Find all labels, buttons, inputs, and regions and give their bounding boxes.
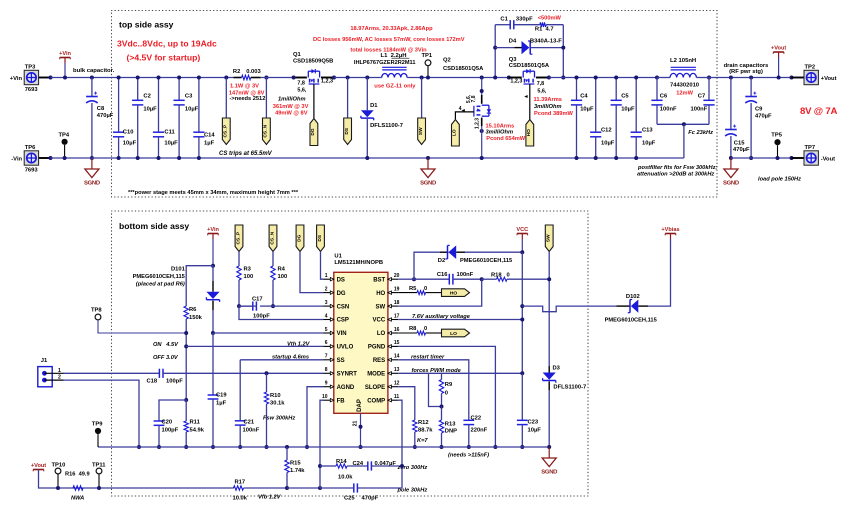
svg-text:C22: C22 bbox=[471, 416, 482, 422]
svg-text:11.39Arms: 11.39Arms bbox=[534, 97, 562, 103]
svg-text:10µF: 10µF bbox=[528, 428, 542, 434]
wire SW net down to D3 bbox=[548, 252, 550, 367]
svg-text:1milliOhm: 1milliOhm bbox=[278, 96, 306, 102]
svg-text:TP9: TP9 bbox=[92, 422, 103, 428]
svg-text:+Vin: +Vin bbox=[207, 227, 219, 233]
wire SYNRT to pin8 bbox=[163, 372, 324, 374]
capacitor C21 100nF bbox=[239, 360, 241, 421]
svg-text:(>4.5V for startup): (>4.5V for startup) bbox=[127, 53, 201, 63]
net tag CS_P (top) bbox=[225, 78, 227, 119]
svg-text:21: 21 bbox=[353, 421, 359, 427]
svg-text:+Vout: +Vout bbox=[771, 45, 786, 51]
resistor R12 88.7k bbox=[413, 420, 417, 432]
wire snubber left leg bbox=[494, 25, 496, 78]
svg-text:VIN: VIN bbox=[337, 331, 347, 337]
svg-text:CS_N: CS_N bbox=[263, 124, 269, 137]
wire RES pin14 to C22 bbox=[398, 360, 469, 421]
svg-text:Q2: Q2 bbox=[443, 58, 451, 64]
pin 10 FB bbox=[324, 399, 334, 401]
svg-text:top side assy: top side assy bbox=[119, 20, 174, 30]
svg-text:100pF: 100pF bbox=[253, 314, 270, 320]
svg-text:C24: C24 bbox=[353, 461, 364, 467]
svg-text:CS trips at 65.5mV: CS trips at 65.5mV bbox=[219, 151, 273, 157]
svg-text:R13: R13 bbox=[445, 422, 456, 428]
pin 20 BST bbox=[388, 278, 398, 280]
svg-text:0: 0 bbox=[445, 391, 448, 397]
svg-text:+Vin: +Vin bbox=[59, 51, 71, 57]
test point TP5 bbox=[774, 139, 780, 145]
svg-text:20: 20 bbox=[394, 273, 400, 279]
svg-text:+Vin: +Vin bbox=[10, 76, 23, 82]
net tag LO (bottom) bbox=[442, 329, 470, 337]
svg-text:PMEG6010CEH,115: PMEG6010CEH,115 bbox=[605, 318, 657, 324]
svg-text:330pF: 330pF bbox=[516, 16, 533, 22]
svg-text:SW: SW bbox=[376, 304, 386, 310]
svg-text:VCC: VCC bbox=[373, 318, 386, 324]
svg-text:R16 49.9: R16 49.9 bbox=[65, 471, 90, 477]
junction C16/SW node bbox=[480, 277, 484, 281]
svg-text:10µF: 10µF bbox=[601, 141, 615, 147]
resistor R6 150k bbox=[184, 306, 188, 319]
svg-text:C4: C4 bbox=[580, 93, 588, 99]
wire top ground rail bbox=[51, 157, 684, 159]
svg-text:MODE: MODE bbox=[367, 372, 385, 378]
resistor R15 1.74k to ground bbox=[285, 445, 289, 449]
test point TP1 bbox=[425, 60, 431, 66]
wire bottom ground rail bbox=[98, 446, 549, 448]
capacitor C10 10µF bbox=[118, 78, 120, 133]
svg-text:CS_N: CS_N bbox=[269, 231, 275, 244]
resistor R3 100 bbox=[237, 266, 241, 280]
svg-text:CSD18501Q5A: CSD18501Q5A bbox=[443, 66, 484, 72]
svg-text:(needs >115nF): (needs >115nF) bbox=[448, 453, 489, 459]
pin 19 HO bbox=[388, 292, 398, 294]
svg-text:SW: SW bbox=[418, 127, 424, 135]
wire UVLO to pin6 bbox=[186, 345, 323, 347]
pin 3 CSN bbox=[324, 305, 334, 307]
svg-text:SW: SW bbox=[546, 234, 552, 242]
svg-text:B340A-13-F: B340A-13-F bbox=[530, 38, 562, 44]
svg-text:R11: R11 bbox=[190, 420, 201, 426]
svg-text:10: 10 bbox=[322, 394, 328, 400]
svg-text:C25: C25 bbox=[344, 495, 355, 501]
diode D102 PMEG6010CEH,115 bbox=[616, 305, 630, 307]
svg-text:CSN: CSN bbox=[337, 304, 350, 310]
diode D1 DFLS1100-7 bbox=[365, 76, 369, 80]
capacitor C9 470uF bbox=[749, 76, 753, 80]
svg-text:R3: R3 bbox=[244, 267, 252, 273]
svg-text:30.1k: 30.1k bbox=[270, 401, 285, 407]
svg-text:R17: R17 bbox=[235, 479, 246, 485]
wire L1 to Q3 section bbox=[407, 77, 509, 79]
svg-text:15.10Arms: 15.10Arms bbox=[486, 123, 515, 129]
svg-text:TP5: TP5 bbox=[771, 133, 782, 139]
svg-text:PMEG6010CEH,115: PMEG6010CEH,115 bbox=[460, 258, 512, 264]
svg-text:R18: R18 bbox=[491, 272, 502, 278]
net tag CS_N (top) bbox=[265, 78, 267, 119]
net tag DG (bottom) bbox=[296, 225, 304, 252]
svg-text:CS_P: CS_P bbox=[235, 231, 241, 244]
svg-text:7.6V auxiliary voltage: 7.6V auxiliary voltage bbox=[412, 314, 470, 320]
wire SW pin18 loop bbox=[398, 279, 482, 306]
svg-text:7,8: 7,8 bbox=[297, 81, 305, 87]
svg-text:D101: D101 bbox=[171, 267, 186, 273]
svg-text:SLOPE: SLOPE bbox=[365, 385, 385, 391]
connector J1 bbox=[38, 367, 52, 387]
test point TP4 bbox=[62, 139, 68, 145]
svg-text:TP6: TP6 bbox=[25, 145, 36, 151]
svg-text:18.97Arms, 20.33Apk, 2.86App: 18.97Arms, 20.33Apk, 2.86App bbox=[350, 26, 433, 32]
capacitor C7 100nF bbox=[708, 78, 710, 101]
pin 4 CSP bbox=[324, 319, 334, 321]
svg-text:HO: HO bbox=[376, 291, 385, 297]
svg-text:C21: C21 bbox=[244, 420, 255, 426]
svg-text:SGND: SGND bbox=[84, 180, 100, 186]
svg-text:R2: R2 bbox=[233, 69, 240, 75]
resistor R11 54.9k bbox=[185, 400, 187, 421]
diode D101 PMEG6010CEH,115 bbox=[212, 266, 214, 281]
resistor R2 0.003 current sense bbox=[224, 76, 228, 80]
svg-text:AGND: AGND bbox=[337, 385, 355, 391]
resistor R13 DNP bbox=[441, 407, 443, 421]
net tag CS_P (bottom) bbox=[235, 225, 243, 252]
wire snubber right leg bbox=[562, 25, 564, 78]
test point TP8 bbox=[95, 314, 101, 320]
svg-text:7: 7 bbox=[325, 354, 328, 360]
svg-text:pole 30kHz: pole 30kHz bbox=[397, 487, 428, 493]
svg-text:R14: R14 bbox=[336, 459, 347, 465]
wire postfilter cap return bbox=[657, 123, 709, 125]
svg-text:18: 18 bbox=[394, 300, 400, 306]
svg-text:R9: R9 bbox=[445, 382, 453, 388]
svg-text:10.0k: 10.0k bbox=[233, 495, 248, 501]
svg-text:17: 17 bbox=[394, 313, 400, 319]
resistor R17 10.0k bbox=[232, 487, 235, 489]
top side assembly dashed border bbox=[112, 11, 718, 198]
test point TP6 -Vin bbox=[24, 151, 38, 165]
net tag SW (bottom) bbox=[545, 225, 553, 252]
inductor L1 2.2uH IHLP6767GZER2R2M11 bbox=[382, 74, 407, 78]
svg-text:0: 0 bbox=[424, 326, 427, 332]
svg-text:TP2: TP2 bbox=[805, 64, 816, 70]
junction SW/R18 bbox=[547, 277, 551, 281]
wire VCC pin17 bbox=[398, 319, 522, 321]
svg-text:470µF: 470µF bbox=[97, 113, 114, 119]
svg-text:FB: FB bbox=[337, 398, 346, 404]
pin 8 SYNRT bbox=[324, 372, 334, 374]
svg-text:3milliOhm: 3milliOhm bbox=[534, 104, 562, 110]
capacitor C17 100pF bbox=[237, 304, 241, 308]
svg-text:5,6,: 5,6, bbox=[297, 88, 306, 94]
svg-text:14: 14 bbox=[394, 354, 400, 360]
svg-text:TP10: TP10 bbox=[52, 462, 66, 468]
svg-text:D3: D3 bbox=[553, 366, 561, 372]
svg-text:postfilter fits for Fsw 300kHz: postfilter fits for Fsw 300kHz; bbox=[637, 165, 717, 171]
ground SGND (input) bbox=[91, 158, 93, 169]
svg-text:TP4: TP4 bbox=[59, 133, 70, 139]
svg-text:total losses 1184mW @ 3Vin: total losses 1184mW @ 3Vin bbox=[350, 47, 427, 53]
svg-text:DS: DS bbox=[317, 234, 323, 241]
svg-text:C13: C13 bbox=[642, 128, 653, 134]
svg-text:744302010: 744302010 bbox=[670, 83, 699, 89]
svg-text:361mW @ 3V: 361mW @ 3V bbox=[273, 104, 309, 110]
svg-text:DFLS1100-7: DFLS1100-7 bbox=[370, 123, 403, 129]
svg-text:0: 0 bbox=[507, 272, 510, 278]
svg-text:D1: D1 bbox=[370, 103, 378, 109]
svg-text:10µF: 10µF bbox=[143, 106, 157, 112]
svg-text:C14: C14 bbox=[204, 133, 215, 139]
resistor R4 100 bbox=[271, 266, 275, 280]
wire Q1 gate to DG tag bbox=[313, 84, 315, 119]
svg-text:(placed at pad R6): (placed at pad R6) bbox=[136, 282, 185, 288]
junction +Vin to R6 branch bbox=[211, 264, 215, 268]
test point TP7 -Vout bbox=[790, 156, 794, 160]
svg-text:C3: C3 bbox=[185, 93, 193, 99]
svg-text:DG: DG bbox=[337, 291, 346, 297]
svg-text:6: 6 bbox=[325, 340, 328, 346]
svg-text:C11: C11 bbox=[164, 129, 175, 135]
svg-text:10µF: 10µF bbox=[621, 106, 635, 112]
resistor R1 4.7 bbox=[540, 22, 546, 27]
wire Q2 gate to LO tag bbox=[455, 112, 474, 120]
svg-text:C15: C15 bbox=[734, 140, 745, 146]
pin 17 VCC bbox=[388, 319, 398, 321]
resistor R16 49.9 bbox=[73, 486, 83, 490]
svg-text:13: 13 bbox=[394, 367, 400, 373]
pin 12 SLOPE bbox=[388, 386, 398, 388]
svg-text:12: 12 bbox=[394, 381, 400, 387]
svg-text:SGND: SGND bbox=[723, 180, 739, 186]
svg-text:LO: LO bbox=[452, 129, 458, 136]
svg-text:(RF pwr stg): (RF pwr stg) bbox=[729, 69, 763, 75]
capacitor C3 10µF bbox=[178, 78, 180, 101]
svg-text:CS_P: CS_P bbox=[223, 124, 229, 137]
svg-text:3Vdc..8Vdc, up to 19Adc: 3Vdc..8Vdc, up to 19Adc bbox=[117, 39, 217, 49]
inductor L2 105nH 744302010 bbox=[655, 76, 659, 80]
svg-text:+Vout: +Vout bbox=[821, 76, 837, 82]
svg-text:SYNRT: SYNRT bbox=[337, 372, 358, 378]
wire AGND pin9 to rail bbox=[307, 387, 324, 447]
wire SLOPE pin12 to R12 bbox=[398, 387, 415, 420]
svg-text:U1: U1 bbox=[334, 253, 342, 259]
svg-text:1µF: 1µF bbox=[216, 401, 227, 407]
junction SW tag tap bbox=[420, 76, 424, 80]
wire FB to pin10 bbox=[320, 400, 324, 488]
svg-text:10µF: 10µF bbox=[123, 141, 137, 147]
diode D3 DFLS1100-7 bbox=[548, 366, 550, 373]
svg-text:LO: LO bbox=[450, 331, 457, 337]
svg-text:COMP: COMP bbox=[367, 398, 385, 404]
wire CSN to pin3 bbox=[273, 305, 324, 307]
svg-text:forces PWM mode: forces PWM mode bbox=[412, 368, 461, 374]
svg-text:10µF: 10µF bbox=[642, 141, 656, 147]
svg-text:-Vout: -Vout bbox=[821, 156, 835, 162]
resistor R10 30.1k bbox=[266, 373, 268, 392]
wire J1 pin2 to ground rail bbox=[44, 379, 63, 381]
svg-text:100nF: 100nF bbox=[691, 106, 708, 112]
junction VCC/D2 bbox=[520, 250, 524, 254]
svg-text:C10: C10 bbox=[123, 129, 134, 135]
svg-text:7693: 7693 bbox=[25, 87, 39, 93]
svg-text:R5: R5 bbox=[409, 286, 417, 292]
svg-text:3: 3 bbox=[325, 300, 328, 306]
svg-text:C23: C23 bbox=[528, 420, 539, 426]
svg-text:1,2,3: 1,2,3 bbox=[474, 118, 480, 129]
wire BST pin20 bbox=[398, 278, 414, 280]
svg-text:Vth 1.2V: Vth 1.2V bbox=[287, 341, 311, 347]
svg-text:TP3: TP3 bbox=[25, 64, 36, 70]
svg-text:J1: J1 bbox=[41, 358, 48, 364]
svg-text:C1: C1 bbox=[500, 16, 508, 22]
svg-text:<500mW: <500mW bbox=[538, 16, 562, 22]
svg-text:HO: HO bbox=[450, 291, 458, 297]
svg-text:9: 9 bbox=[325, 381, 328, 387]
junction zero branch bbox=[318, 464, 322, 468]
svg-text:R6: R6 bbox=[189, 307, 197, 313]
svg-text:C9: C9 bbox=[755, 106, 763, 112]
svg-text:use GZ-11 only: use GZ-11 only bbox=[374, 83, 416, 89]
svg-text:DAP: DAP bbox=[357, 399, 363, 412]
pin 11 COMP bbox=[388, 399, 398, 401]
svg-text:1: 1 bbox=[325, 273, 328, 279]
svg-text:-Vin: -Vin bbox=[11, 156, 22, 162]
test point TP9 bbox=[95, 428, 101, 434]
net tag DS (top) bbox=[347, 78, 349, 119]
capacitor C24 0.047uF bbox=[367, 461, 369, 470]
junction BST node bbox=[412, 277, 416, 281]
junction Vbias takeoff bbox=[520, 304, 524, 308]
wire +Vin main line left section bbox=[51, 77, 234, 79]
wire TP3 pin bbox=[39, 77, 51, 79]
svg-text:470pF: 470pF bbox=[362, 495, 379, 501]
pin 18 SW bbox=[388, 305, 398, 307]
svg-text:100nF: 100nF bbox=[660, 106, 677, 112]
svg-text:19: 19 bbox=[394, 286, 400, 292]
wire FB node bbox=[287, 487, 320, 489]
svg-text:Q1: Q1 bbox=[293, 52, 302, 58]
svg-text:5: 5 bbox=[325, 327, 328, 333]
junction R11/C20 node bbox=[184, 398, 188, 402]
svg-text:D2: D2 bbox=[438, 258, 445, 264]
svg-text:CSP: CSP bbox=[337, 318, 349, 324]
bottom side assembly dashed border bbox=[112, 211, 589, 496]
resistor R9 0 bbox=[441, 373, 443, 379]
diode D2 PMEG6010CEH,115 bootstrap bbox=[414, 252, 440, 279]
svg-text:470µF: 470µF bbox=[755, 113, 772, 119]
ground SGND (bottom) bbox=[548, 447, 550, 458]
svg-text:DS: DS bbox=[344, 127, 350, 134]
svg-text:10µF: 10µF bbox=[185, 106, 199, 112]
svg-text:10.0k: 10.0k bbox=[338, 474, 353, 480]
svg-text:K=7: K=7 bbox=[417, 438, 428, 444]
svg-text:100pF: 100pF bbox=[166, 379, 183, 385]
ground SGND (power stage) bbox=[426, 156, 430, 160]
capacitor C15 470uF bbox=[729, 76, 733, 80]
svg-text:Pcond 389mW: Pcond 389mW bbox=[534, 111, 574, 117]
svg-text:OFF 3.0V: OFF 3.0V bbox=[153, 355, 179, 361]
svg-text:NWA: NWA bbox=[71, 495, 84, 501]
svg-text:3milliOhm: 3milliOhm bbox=[486, 130, 514, 136]
svg-text:100: 100 bbox=[278, 274, 288, 280]
svg-text:10µF: 10µF bbox=[164, 141, 178, 147]
svg-text:4: 4 bbox=[325, 313, 328, 319]
svg-text:PGND: PGND bbox=[368, 345, 386, 351]
pin 7 SS bbox=[324, 359, 334, 361]
svg-text:100pF: 100pF bbox=[162, 428, 179, 434]
wire MODE pin13 to VCC bbox=[398, 372, 522, 374]
svg-text:8: 8 bbox=[325, 367, 328, 373]
capacitor C1 330pF snubber bbox=[495, 24, 510, 26]
test point TP10 bbox=[55, 468, 61, 474]
svg-text:88.7k: 88.7k bbox=[418, 428, 433, 434]
wire COMP pin11 down bbox=[398, 400, 402, 488]
capacitor C22 220nF bbox=[463, 419, 474, 421]
svg-text:CSD18501Q5A: CSD18501Q5A bbox=[509, 63, 550, 69]
wire J1 pin1 to C18 bbox=[44, 372, 63, 374]
capacitor C25 470pF bbox=[320, 487, 354, 489]
svg-text:10µF: 10µF bbox=[580, 106, 594, 112]
wire SS to pin7: via C21 bbox=[240, 359, 323, 361]
wire VCC rail down bbox=[521, 252, 523, 373]
svg-text:C12: C12 bbox=[601, 128, 612, 134]
svg-text:LM5121MH/NOPB: LM5121MH/NOPB bbox=[334, 260, 383, 266]
pin 13 MODE bbox=[388, 372, 398, 374]
svg-text:5,6,: 5,6, bbox=[537, 89, 546, 95]
net tag LO (top) bbox=[452, 120, 460, 147]
net tag DS (bottom) bbox=[317, 225, 325, 252]
svg-text:DG: DG bbox=[296, 234, 302, 241]
svg-text:Fsw 300kHz: Fsw 300kHz bbox=[263, 415, 295, 421]
svg-text:Pcond 654mW: Pcond 654mW bbox=[486, 136, 526, 142]
pin 1 DS bbox=[324, 278, 334, 280]
svg-text:restart timer: restart timer bbox=[411, 354, 445, 360]
svg-text:2: 2 bbox=[325, 286, 328, 292]
svg-text:C2: C2 bbox=[143, 93, 150, 99]
svg-text:SGND: SGND bbox=[541, 469, 557, 475]
svg-text:1µF: 1µF bbox=[204, 141, 215, 147]
svg-text:470µF: 470µF bbox=[733, 147, 750, 153]
capacitor C20 100pF bbox=[159, 400, 186, 421]
svg-text:DNP: DNP bbox=[445, 429, 457, 435]
wire VIN to pin5 bbox=[213, 332, 324, 334]
svg-text:1.1W @ 3V: 1.1W @ 3V bbox=[230, 84, 259, 90]
svg-text:R8: R8 bbox=[409, 326, 417, 332]
svg-text:4: 4 bbox=[459, 106, 462, 112]
svg-text:VCC: VCC bbox=[516, 227, 528, 233]
svg-text:R15: R15 bbox=[290, 460, 301, 466]
svg-text:TP11: TP11 bbox=[92, 462, 106, 468]
IC U1 LM5121MH/NOPB bbox=[334, 272, 388, 413]
junction C8 at ground rail bbox=[90, 156, 94, 160]
capacitor C4 10µF bbox=[576, 78, 578, 101]
wire Q3 gate to HO tag bbox=[529, 84, 531, 120]
resistor R14 10.0k bbox=[320, 465, 336, 467]
svg-text:IHLP6767GZER2R2M11: IHLP6767GZER2R2M11 bbox=[354, 60, 416, 66]
wire main line Q3 to L2 bbox=[549, 77, 657, 79]
svg-text:R1 4.7: R1 4.7 bbox=[535, 27, 554, 33]
junction VIN node bbox=[211, 331, 215, 335]
wire DS to pin1 bbox=[321, 252, 324, 280]
svg-text:R12: R12 bbox=[418, 420, 429, 426]
svg-text:1,2,3: 1,2,3 bbox=[321, 78, 333, 84]
svg-text:C19: C19 bbox=[216, 393, 227, 399]
resistor R5 0 gate HO bbox=[398, 292, 417, 294]
junction R9/R13 bbox=[440, 405, 444, 409]
pin 6 UVLO bbox=[324, 345, 334, 347]
svg-text:DG: DG bbox=[310, 128, 316, 135]
svg-text:HO: HO bbox=[526, 129, 532, 136]
junction rail at TP6 bbox=[49, 156, 53, 160]
